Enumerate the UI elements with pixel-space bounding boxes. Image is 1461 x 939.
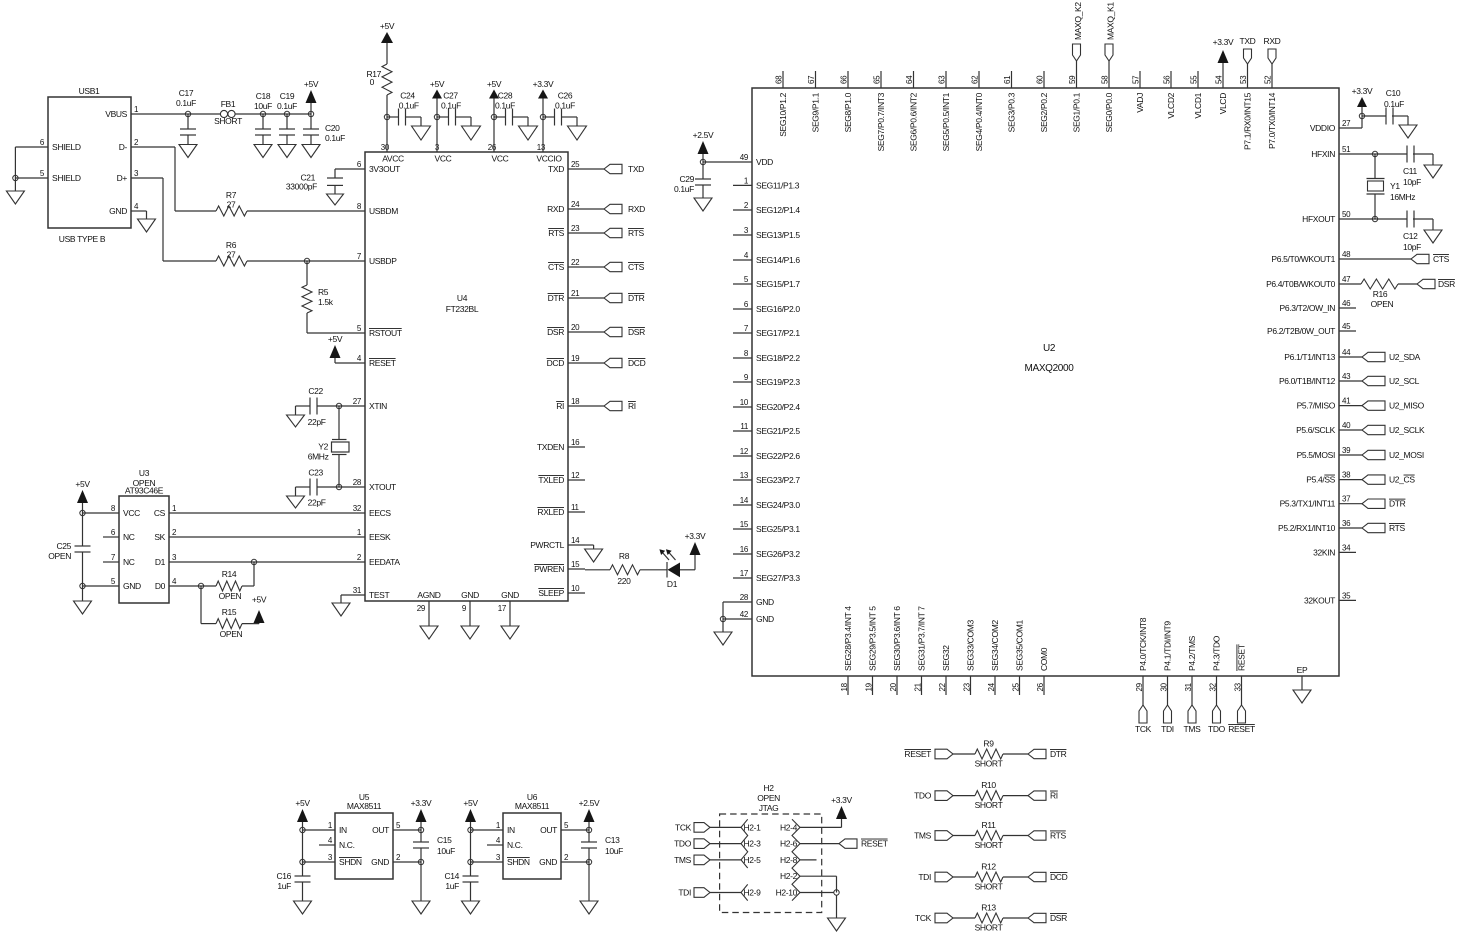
svg-text:OPEN: OPEN [1371,299,1394,309]
svg-text:RTS: RTS [628,228,644,238]
svg-text:P4.1/TDI/INT9: P4.1/TDI/INT9 [1163,621,1173,671]
svg-text:U2_SCLK: U2_SCLK [1389,425,1425,435]
svg-text:VLCD2: VLCD2 [1166,92,1176,118]
svg-text:17: 17 [498,604,507,613]
svg-text:EECS: EECS [369,508,391,518]
svg-text:SHORT: SHORT [975,923,1003,933]
svg-text:16: 16 [571,438,580,447]
svg-text:SHDN: SHDN [507,857,530,867]
svg-text:C12: C12 [1403,231,1418,241]
svg-text:DCD: DCD [547,358,565,368]
svg-text:TMS: TMS [914,831,932,841]
svg-text:H2-4: H2-4 [780,822,798,832]
svg-text:SHIELD: SHIELD [52,142,81,152]
svg-text:SEG2/P0.2: SEG2/P0.2 [1039,92,1049,132]
svg-text:AVCC: AVCC [382,154,404,164]
svg-text:R5: R5 [318,287,329,297]
svg-text:15: 15 [571,560,580,569]
svg-text:+5V: +5V [304,79,319,89]
svg-text:18: 18 [571,397,580,406]
svg-text:SLEEP: SLEEP [538,588,564,598]
svg-text:SEG18/P2.2: SEG18/P2.2 [756,353,800,363]
svg-text:TDI: TDI [1161,724,1174,734]
svg-text:SEG9/P1.1: SEG9/P1.1 [811,92,821,132]
svg-text:23: 23 [571,224,580,233]
svg-text:CTS: CTS [628,262,645,272]
svg-text:DTR: DTR [628,293,645,303]
svg-text:C20: C20 [325,123,340,133]
svg-text:11: 11 [740,422,749,431]
svg-text:0.1uF: 0.1uF [674,184,694,194]
svg-text:SEG14/P1.6: SEG14/P1.6 [756,255,800,265]
svg-text:FB1: FB1 [221,99,236,109]
svg-text:C17: C17 [179,88,194,98]
svg-text:10: 10 [571,584,580,593]
svg-text:GND: GND [371,857,389,867]
svg-text:P6.1/T1/INT13: P6.1/T1/INT13 [1284,352,1335,362]
svg-text:P5.2/RX1/INT10: P5.2/RX1/INT10 [1278,523,1336,533]
svg-text:EEDATA: EEDATA [369,557,400,567]
svg-text:DTR: DTR [1389,499,1406,509]
svg-text:+3.3V: +3.3V [685,531,706,541]
svg-text:13: 13 [740,471,749,480]
svg-text:DSR: DSR [547,327,564,337]
svg-text:SEG30/P3.6/INT 6: SEG30/P3.6/INT 6 [892,606,902,671]
svg-text:32: 32 [353,504,362,513]
svg-text:P7.0/TX0/INT14: P7.0/TX0/INT14 [1267,92,1277,149]
svg-text:10pF: 10pF [1403,177,1421,187]
svg-text:USBDM: USBDM [369,206,398,216]
svg-text:51: 51 [1342,145,1351,154]
svg-text:27: 27 [227,250,236,260]
svg-text:0.1uF: 0.1uF [441,101,461,111]
svg-text:52: 52 [1264,75,1273,84]
svg-text:22: 22 [938,682,947,691]
svg-text:VDDIO: VDDIO [1310,123,1336,133]
svg-text:VADJ: VADJ [1135,93,1145,113]
svg-text:H2-3: H2-3 [744,839,762,849]
svg-text:R12: R12 [981,862,996,872]
svg-text:MAXQ_K2: MAXQ_K2 [1073,2,1083,40]
svg-text:RESET: RESET [369,358,396,368]
svg-text:U4: U4 [457,293,468,303]
svg-text:N.C.: N.C. [507,840,523,850]
svg-text:P4.0/TCK/INT8: P4.0/TCK/INT8 [1138,617,1148,671]
svg-text:54: 54 [1215,75,1224,84]
svg-text:C11: C11 [1403,166,1418,176]
svg-text:PWRCTL: PWRCTL [530,540,564,550]
svg-text:37: 37 [1342,495,1351,504]
svg-text:CS: CS [154,508,166,518]
svg-text:C22: C22 [308,386,323,396]
svg-text:SEG12/P1.4: SEG12/P1.4 [756,205,800,215]
svg-text:P7.1/RX0/INT15: P7.1/RX0/INT15 [1243,92,1253,150]
svg-text:GND: GND [109,206,127,216]
svg-text:GND: GND [501,590,519,600]
svg-text:H2: H2 [764,783,775,793]
svg-text:C23: C23 [308,467,323,477]
svg-text:DSR: DSR [1050,913,1067,923]
svg-text:SEG13/P1.5: SEG13/P1.5 [756,230,800,240]
svg-text:C10: C10 [1386,88,1401,98]
svg-text:40: 40 [1342,421,1351,430]
svg-text:SEG26/P3.2: SEG26/P3.2 [756,549,800,559]
svg-text:Y2: Y2 [318,442,328,452]
svg-text:63: 63 [938,75,947,84]
svg-text:R9: R9 [983,739,994,749]
svg-text:35: 35 [1342,591,1351,600]
svg-text:65: 65 [873,75,882,84]
svg-text:VDD: VDD [756,157,773,167]
svg-text:+5V: +5V [430,79,445,89]
svg-text:P6.4/T0B/WKOUT0: P6.4/T0B/WKOUT0 [1266,279,1336,289]
svg-text:SEG20/P2.4: SEG20/P2.4 [756,402,800,412]
svg-text:RTS: RTS [1050,831,1066,841]
svg-text:C19: C19 [280,91,295,101]
svg-text:+5V: +5V [252,595,267,605]
svg-text:12: 12 [740,447,749,456]
svg-text:TCK: TCK [915,913,932,923]
svg-text:RESET: RESET [1237,644,1247,671]
svg-text:24: 24 [571,200,580,209]
svg-text:R7: R7 [226,190,237,200]
svg-text:D1: D1 [155,557,166,567]
svg-text:SEG1/P0.1: SEG1/P0.1 [1072,92,1082,132]
svg-text:SHORT: SHORT [975,882,1003,892]
svg-text:SEG22/P2.6: SEG22/P2.6 [756,451,800,461]
svg-text:+5V: +5V [328,334,343,344]
svg-text:22pF: 22pF [308,498,326,508]
svg-text:TXDEN: TXDEN [537,442,564,452]
svg-text:RTS: RTS [1389,523,1405,533]
svg-text:RXD: RXD [628,204,645,214]
svg-text:XTIN: XTIN [369,401,387,411]
svg-text:SEG23/P2.7: SEG23/P2.7 [756,475,800,485]
svg-text:OUT: OUT [540,825,557,835]
svg-text:56: 56 [1163,75,1172,84]
svg-text:22: 22 [571,258,580,267]
svg-text:+3.3V: +3.3V [533,79,554,89]
svg-text:27: 27 [1342,119,1351,128]
svg-text:P6.3/T2/OW_IN: P6.3/T2/OW_IN [1280,303,1336,313]
svg-text:16: 16 [740,545,749,554]
svg-text:NC: NC [123,532,135,542]
svg-text:VLCD1: VLCD1 [1193,92,1203,118]
svg-text:41: 41 [1342,397,1351,406]
svg-text:H2-9: H2-9 [744,888,762,898]
svg-text:+5V: +5V [75,479,90,489]
svg-text:20: 20 [571,323,580,332]
svg-text:31: 31 [1184,682,1193,691]
svg-text:P5.5/MOSI: P5.5/MOSI [1297,450,1335,460]
svg-text:61: 61 [1003,75,1012,84]
svg-text:R6: R6 [226,240,237,250]
svg-text:TMS: TMS [1184,724,1202,734]
svg-text:C14: C14 [444,871,459,881]
svg-text:25: 25 [1012,682,1021,691]
svg-text:DSR: DSR [1438,279,1455,289]
svg-text:+3.3V: +3.3V [411,798,432,808]
svg-text:H2-10: H2-10 [776,888,798,898]
svg-text:SHORT: SHORT [975,800,1003,810]
svg-text:55: 55 [1190,75,1199,84]
svg-text:+3.3V: +3.3V [1352,86,1373,96]
svg-text:3V3OUT: 3V3OUT [369,164,400,174]
svg-text:+5V: +5V [487,79,502,89]
svg-text:DSR: DSR [628,327,645,337]
svg-text:IN: IN [507,825,515,835]
svg-text:SEG15/P1.7: SEG15/P1.7 [756,279,800,289]
svg-text:6MHz: 6MHz [308,452,329,462]
svg-text:+5V: +5V [463,798,478,808]
svg-text:0.1uF: 0.1uF [495,101,515,111]
svg-text:R13: R13 [981,903,996,913]
svg-text:24: 24 [987,682,996,691]
svg-text:RI: RI [556,401,564,411]
svg-text:+2.5V: +2.5V [579,798,600,808]
svg-text:36: 36 [1342,519,1351,528]
svg-text:TDO: TDO [1208,724,1226,734]
svg-text:30: 30 [1160,682,1169,691]
svg-text:SEG16/P2.0: SEG16/P2.0 [756,304,800,314]
svg-text:TXLED: TXLED [538,475,564,485]
svg-text:H2-5: H2-5 [744,855,762,865]
svg-text:SEG35/COM1: SEG35/COM1 [1015,620,1025,671]
svg-text:0.1uF: 0.1uF [555,101,575,111]
svg-text:USB TYPE B: USB TYPE B [59,234,106,244]
svg-text:OPEN: OPEN [220,629,243,639]
svg-text:HFXOUT: HFXOUT [1302,214,1335,224]
svg-text:OUT: OUT [372,825,389,835]
svg-text:TCK: TCK [675,822,692,832]
svg-text:P5.3/TX1/INT11: P5.3/TX1/INT11 [1280,499,1336,509]
svg-text:C26: C26 [558,91,573,101]
svg-text:25: 25 [571,160,580,169]
svg-text:53: 53 [1239,75,1248,84]
svg-text:10uF: 10uF [437,846,455,856]
svg-text:D-: D- [119,142,128,152]
svg-text:RI: RI [1050,791,1058,801]
svg-text:0: 0 [370,77,375,87]
svg-text:59: 59 [1068,75,1077,84]
svg-text:C28: C28 [498,91,513,101]
svg-text:GND: GND [756,614,774,624]
svg-text:EESK: EESK [369,532,391,542]
svg-text:SEG4/P0.4/INT0: SEG4/P0.4/INT0 [974,92,984,151]
svg-text:11: 11 [571,503,580,512]
svg-text:C29: C29 [679,174,694,184]
svg-text:TDO: TDO [914,791,932,801]
svg-text:+5V: +5V [295,798,310,808]
svg-text:TXD: TXD [1240,36,1256,46]
svg-text:U2_SDA: U2_SDA [1389,352,1421,362]
svg-text:32: 32 [1209,682,1218,691]
svg-text:VLCD: VLCD [1218,93,1228,114]
svg-text:15: 15 [740,520,749,529]
svg-text:H2-1: H2-1 [744,822,762,832]
svg-text:RI: RI [628,401,636,411]
svg-text:P5.4/SS: P5.4/SS [1306,475,1335,485]
svg-text:32KIN: 32KIN [1313,547,1335,557]
svg-text:RTS: RTS [548,228,564,238]
svg-text:0.1uF: 0.1uF [399,101,419,111]
svg-text:U2_CS: U2_CS [1389,475,1415,485]
svg-text:R16: R16 [1373,289,1388,299]
svg-text:67: 67 [807,75,816,84]
svg-text:+5V: +5V [380,21,395,31]
svg-text:C27: C27 [443,91,458,101]
svg-text:SK: SK [154,532,165,542]
svg-text:OPEN: OPEN [219,591,242,601]
svg-text:45: 45 [1342,322,1351,331]
svg-text:SEG32: SEG32 [941,645,951,671]
svg-text:C24: C24 [400,91,415,101]
svg-text:IN: IN [339,825,347,835]
svg-text:58: 58 [1101,75,1110,84]
svg-text:30: 30 [381,143,390,152]
svg-text:U3: U3 [139,468,150,478]
svg-text:SEG8/P1.0: SEG8/P1.0 [843,92,853,132]
svg-text:27: 27 [227,200,236,210]
svg-text:GND: GND [539,857,557,867]
svg-text:SEG3/P0.3: SEG3/P0.3 [1007,92,1017,132]
svg-text:GND: GND [756,597,774,607]
svg-text:26: 26 [488,143,497,152]
svg-text:XTOUT: XTOUT [369,482,396,492]
svg-text:0.1uF: 0.1uF [176,98,196,108]
svg-text:10pF: 10pF [1403,242,1421,252]
svg-text:MAXQ2000: MAXQ2000 [1025,363,1075,374]
svg-text:C18: C18 [256,91,271,101]
svg-text:NC: NC [123,557,135,567]
svg-text:29: 29 [1135,682,1144,691]
svg-text:38: 38 [1342,471,1351,480]
svg-text:27: 27 [353,397,362,406]
svg-text:C25: C25 [56,541,71,551]
svg-text:SHORT: SHORT [975,759,1003,769]
svg-text:47: 47 [1342,275,1351,284]
svg-text:28: 28 [740,593,749,602]
svg-text:HFXIN: HFXIN [1311,149,1335,159]
svg-text:SHORT: SHORT [975,840,1003,850]
svg-text:68: 68 [775,75,784,84]
svg-text:10uF: 10uF [605,846,623,856]
svg-text:RXLED: RXLED [537,507,564,517]
svg-text:SEG5/P0.5/INT1: SEG5/P0.5/INT1 [941,92,951,151]
svg-text:H2-2: H2-2 [780,871,798,881]
svg-text:VCCIO: VCCIO [536,154,562,164]
svg-text:SEG34/COM2: SEG34/COM2 [990,620,1000,671]
svg-text:SHDN: SHDN [339,857,362,867]
svg-text:VBUS: VBUS [105,109,127,119]
svg-text:44: 44 [1342,348,1351,357]
svg-text:10uF: 10uF [254,101,272,111]
svg-text:CTS: CTS [548,262,565,272]
svg-text:H2-6: H2-6 [780,839,798,849]
svg-text:42: 42 [740,610,749,619]
svg-text:29: 29 [417,604,426,613]
svg-text:D+: D+ [117,173,128,183]
svg-text:14: 14 [740,496,749,505]
svg-text:1.5k: 1.5k [318,297,334,307]
svg-text:23: 23 [963,682,972,691]
svg-text:EP: EP [1297,665,1308,675]
svg-text:R10: R10 [981,780,996,790]
svg-text:RESET: RESET [861,839,888,849]
svg-text:VCC: VCC [492,154,509,164]
svg-text:U2: U2 [1043,343,1056,354]
svg-text:OPEN: OPEN [48,551,71,561]
svg-text:MAXQ_K1: MAXQ_K1 [1106,2,1116,40]
svg-text:14: 14 [571,536,580,545]
svg-text:0.1uF: 0.1uF [1384,99,1404,109]
svg-text:TEST: TEST [369,590,389,600]
svg-text:SHIELD: SHIELD [52,173,81,183]
svg-text:D1: D1 [667,579,678,589]
svg-text:31: 31 [353,586,362,595]
svg-text:19: 19 [571,354,580,363]
svg-text:62: 62 [971,75,980,84]
svg-text:RESET: RESET [1228,724,1255,734]
svg-text:TMS: TMS [674,855,692,865]
svg-text:SEG21/P2.5: SEG21/P2.5 [756,426,800,436]
svg-text:COM0: COM0 [1039,647,1049,671]
svg-text:SEG17/P2.1: SEG17/P2.1 [756,328,800,338]
svg-text:TDI: TDI [918,872,931,882]
svg-text:MAX8511: MAX8511 [347,801,382,811]
svg-text:USBDP: USBDP [369,256,397,266]
svg-text:18: 18 [840,682,849,691]
svg-text:AGND: AGND [417,590,440,600]
svg-text:+3.3V: +3.3V [1213,37,1234,47]
svg-text:SEG10/P1.2: SEG10/P1.2 [778,92,788,136]
svg-text:26: 26 [1036,682,1045,691]
svg-text:JTAG: JTAG [759,803,779,813]
svg-text:220: 220 [617,576,631,586]
svg-text:GND: GND [123,581,141,591]
svg-text:21: 21 [571,289,580,298]
svg-text:21: 21 [914,682,923,691]
svg-text:28: 28 [353,478,362,487]
svg-text:R15: R15 [222,607,237,617]
svg-text:P6.0/T1B/INT12: P6.0/T1B/INT12 [1279,376,1336,386]
svg-text:12: 12 [571,471,580,480]
svg-text:SEG0/P0.0: SEG0/P0.0 [1104,92,1114,132]
svg-text:P6.2/T2B/0W_OUT: P6.2/T2B/0W_OUT [1267,326,1335,336]
svg-text:64: 64 [905,75,914,84]
svg-text:P5.6/SCLK: P5.6/SCLK [1296,425,1336,435]
svg-text:SEG24/P3.0: SEG24/P3.0 [756,500,800,510]
svg-text:57: 57 [1132,75,1141,84]
svg-text:SEG6/P0.6/INT2: SEG6/P0.6/INT2 [909,92,919,151]
svg-text:34: 34 [1342,543,1351,552]
svg-text:P5.7/MISO: P5.7/MISO [1297,401,1336,411]
svg-text:D0: D0 [155,581,166,591]
svg-text:VCC: VCC [123,508,140,518]
svg-text:RESET: RESET [904,749,931,759]
svg-text:50: 50 [1342,210,1351,219]
svg-text:U2_MOSI: U2_MOSI [1389,450,1424,460]
svg-text:16MHz: 16MHz [1390,192,1415,202]
svg-text:DTR: DTR [1050,749,1067,759]
svg-text:20: 20 [889,682,898,691]
svg-text:RXD: RXD [547,204,564,214]
svg-text:C13: C13 [605,835,620,845]
svg-text:0.1uF: 0.1uF [325,133,345,143]
svg-text:TDI: TDI [678,888,691,898]
svg-text:R8: R8 [619,551,630,561]
svg-text:43: 43 [1342,372,1351,381]
